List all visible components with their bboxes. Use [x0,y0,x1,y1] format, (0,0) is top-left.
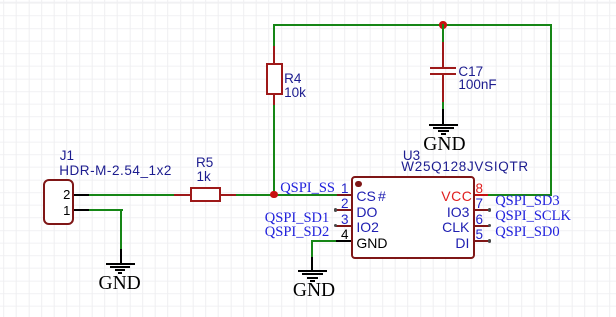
label U3 [403,149,420,163]
pin number 7 [476,197,484,211]
capacitor C17 plate bottom [430,73,456,76]
wire J1 pin1 down [120,209,122,249]
label J1 [60,149,74,163]
pin name DI [440,236,469,250]
wire J1 pin1 horizontal [89,209,123,211]
net label QSPI_SS [280,181,335,196]
ground symbol C17 [442,109,444,125]
pin number 2 (J1) [63,188,70,201]
pin name IO3 [440,205,469,219]
label W25Q128JVSIQTR [401,160,529,174]
pin name DO [356,205,377,219]
label R5 [196,156,213,170]
wire R5 to U3 pin1 [236,194,338,196]
pin U3-4 stub (GND, black) [336,240,352,242]
capacitor C17 pin bottom [442,75,444,101]
capacitor C17 plate top [430,67,456,70]
label GND (J1) [99,274,141,294]
label 1k [197,170,211,184]
label 100nF [458,78,496,92]
pin J1-2 stub [74,194,89,196]
ground symbol J1 [120,249,122,265]
resistor R4 pin top [273,46,275,65]
pin name VCC [441,189,472,203]
wire R4 bottom to junction [273,105,275,196]
U3 pin1 marker dot [355,181,361,187]
resistor R5 pin right [221,194,236,196]
node junction QSPI_SS [270,191,278,199]
resistor R4 pin bottom [273,95,275,106]
pin name CS# [356,189,385,203]
net label QSPI_SCLK [495,209,571,224]
pin number 1 [341,182,349,196]
capacitor C17 pin top [442,42,444,67]
wire VCC top horizontal [273,24,552,26]
net label QSPI_SD2 [265,225,329,240]
label GND (U3) [293,281,335,301]
resistor R5 body [190,187,221,202]
pin number 3 [341,213,349,227]
resistor R4 body [266,63,283,95]
wire top of R4 [273,24,275,46]
pin number 8 [476,182,484,196]
wire C17 to ground [442,102,444,110]
pin U3-8 stub (VCC, red) [475,194,488,196]
pin name CLK [440,220,469,234]
pin U3-3 stub [336,225,351,227]
pin name GND [356,236,387,250]
ground symbol U3 [311,257,313,271]
pin J1-1 stub [74,209,89,211]
pin U3-7 stub [475,209,489,211]
label C17 [458,65,483,79]
pin number 2 [341,197,349,211]
net label QSPI_SD0 [495,225,559,240]
node VCC junction at C17 [439,21,447,29]
pin U3-1 stub [337,194,351,196]
pin number 1 (J1) [63,204,70,217]
pin number 6 [476,213,484,227]
pin U3-2 stub [336,209,351,211]
IC U3 body [351,176,474,260]
label GND (C17) [423,135,465,155]
wire J1 pin2 to R5 [89,194,174,196]
pin U3-6 stub [475,225,489,227]
capacitor C17 wire from junction [442,24,444,42]
label 10k [284,86,306,100]
connector J1 body [43,179,74,226]
label R4 [284,72,301,86]
wire U3 pin4 to ground [311,240,335,242]
resistor R5 pin left [174,194,190,196]
wire pin8 to corner [488,194,551,196]
label HDR-M-2.54_1x2 [59,164,172,178]
pin name IO2 [356,220,379,234]
pin number 4 [341,228,349,242]
net label QSPI_SD1 [265,211,329,226]
net label QSPI_SD3 [495,194,559,209]
wire VCC right vertical [550,24,552,196]
pin U3-5 stub [475,240,489,242]
pin number 5 [476,228,484,242]
